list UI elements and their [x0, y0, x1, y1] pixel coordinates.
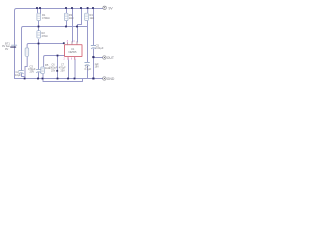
- wire corner down to C9: [27, 44, 28, 49]
- wire C2 bottom lead to ground bus: [22, 74, 26, 79]
- wire threshold rail y43.5 to U1: [29, 43, 65, 45]
- svg-text:10µF: 10µF: [15, 73, 21, 77]
- port OUT: [103, 56, 106, 59]
- U1 pin numbers magenta: [64, 41, 77, 60]
- svg-text:GND: GND: [107, 77, 115, 81]
- wire top VCC bus: [17, 8, 104, 10]
- node junction x72 vcc: [71, 7, 73, 9]
- op-amp U1 555 timer box: [65, 45, 83, 57]
- wire pin1 drop x57.5: [57, 56, 59, 79]
- svg-text:0.1µF: 0.1µF: [85, 67, 92, 71]
- U1 pin stub top pin 5: [67, 43, 69, 45]
- U1 pin stub top pin 4: [76, 42, 78, 45]
- resistor R4: [85, 13, 89, 20]
- battery BT1 plates on left rail: [12, 44, 17, 46]
- wire VCC to U1 pin x72: [72, 9, 74, 43]
- svg-text:25V: 25V: [61, 69, 66, 72]
- node junction U1 left pin end: [63, 42, 65, 44]
- node junction gnd x68: [67, 78, 69, 80]
- capacitor C2: [19, 69, 24, 71]
- node junction gnd r5: [42, 78, 44, 80]
- node junction gnd pin1: [57, 78, 59, 80]
- wire left rail: [15, 9, 17, 79]
- wire node A horizontal (R1/R2 junction rail): [22, 27, 88, 29]
- svg-text:25V: 25V: [30, 70, 35, 74]
- wire R2 leads: [38, 27, 40, 45]
- U1 pin stub bottom pin 1: [74, 57, 76, 60]
- node junction x81 vcc: [80, 7, 82, 9]
- svg-text:47kΩ: 47kΩ: [42, 34, 48, 38]
- node junction R4 vcc: [87, 7, 89, 9]
- resistor R2: [37, 31, 41, 38]
- node junction trigger: [57, 55, 59, 57]
- power port 9V: [103, 6, 106, 9]
- wire secondary ground detour: [43, 79, 83, 82]
- wire bottom ground bus: [15, 78, 104, 80]
- wire U1 pin drop x74.5: [74, 60, 76, 79]
- wire R5 drop: [42, 57, 45, 68]
- wire R3 bottom lead to node A: [66, 21, 68, 27]
- capacitor C3: [36, 68, 41, 70]
- wire U1 pin3 drop x68: [68, 60, 70, 79]
- U1 pin stub top pin 8: [71, 42, 73, 45]
- node junction R1 top b: [39, 7, 41, 9]
- node junction pin1 mid: [56, 70, 58, 72]
- node junction out: [92, 56, 94, 58]
- node junction R3 vcc: [65, 7, 67, 9]
- wire reset drop from bus x81 with jog to x77: [78, 9, 82, 43]
- resistor R3: [64, 13, 68, 20]
- svg-text:25V: 25V: [51, 69, 56, 72]
- ground port GND: [103, 77, 106, 80]
- wire trigger rail y55.5: [44, 56, 65, 58]
- capacitor C5: [91, 45, 95, 47]
- node junction gnd c2: [24, 78, 26, 80]
- node junction R1 top a: [36, 7, 38, 9]
- node junction gnd x74.5: [74, 78, 76, 80]
- wire C2 drop from node A: [21, 29, 23, 71]
- node junction R3 bottom: [65, 26, 67, 28]
- svg-text:9V: 9V: [5, 47, 8, 51]
- resistor C9 vertical box: [25, 48, 29, 56]
- node junction x93 vcc: [92, 7, 94, 9]
- svg-text:OUT: OUT: [107, 56, 114, 60]
- wire R4 chain x87: [87, 9, 89, 63]
- svg-text:470kΩ: 470kΩ: [42, 16, 50, 20]
- wire OUT tap: [94, 57, 104, 59]
- wire R3 top lead: [66, 9, 68, 14]
- wire C3 drop: [38, 44, 40, 70]
- svg-text:1kΩ: 1kΩ: [69, 16, 74, 20]
- capacitor C4: [85, 62, 90, 64]
- wire R1 top leads: [37, 9, 39, 14]
- node junction x77: [76, 26, 78, 28]
- U1 pin stub bottom pin 3: [67, 57, 69, 60]
- svg-text:NE555: NE555: [69, 50, 77, 54]
- node junction gnd x93: [92, 78, 94, 80]
- svg-text:1kΩ: 1kΩ: [90, 16, 95, 20]
- svg-text:0.01µF: 0.01µF: [95, 46, 104, 50]
- wire C3 bottom lead: [38, 73, 40, 79]
- node junction threshold: [38, 43, 40, 45]
- wire R5 bottom lead: [42, 74, 44, 79]
- svg-text:16V: 16V: [95, 66, 100, 69]
- wire right rail x93: [93, 9, 95, 46]
- wire C5 bottom to OUT node and ground: [93, 49, 95, 79]
- svg-text:9V: 9V: [109, 6, 114, 10]
- wire C9 bottom lead with jog to gnd: [25, 57, 27, 79]
- node junction R1 bottom: [38, 26, 40, 28]
- wire C4 bottom lead: [87, 66, 89, 79]
- node junction gnd c3: [37, 78, 39, 80]
- wire R1 bottom to node A: [38, 21, 40, 27]
- resistor R1: [37, 13, 41, 20]
- resistor R5: [41, 67, 45, 74]
